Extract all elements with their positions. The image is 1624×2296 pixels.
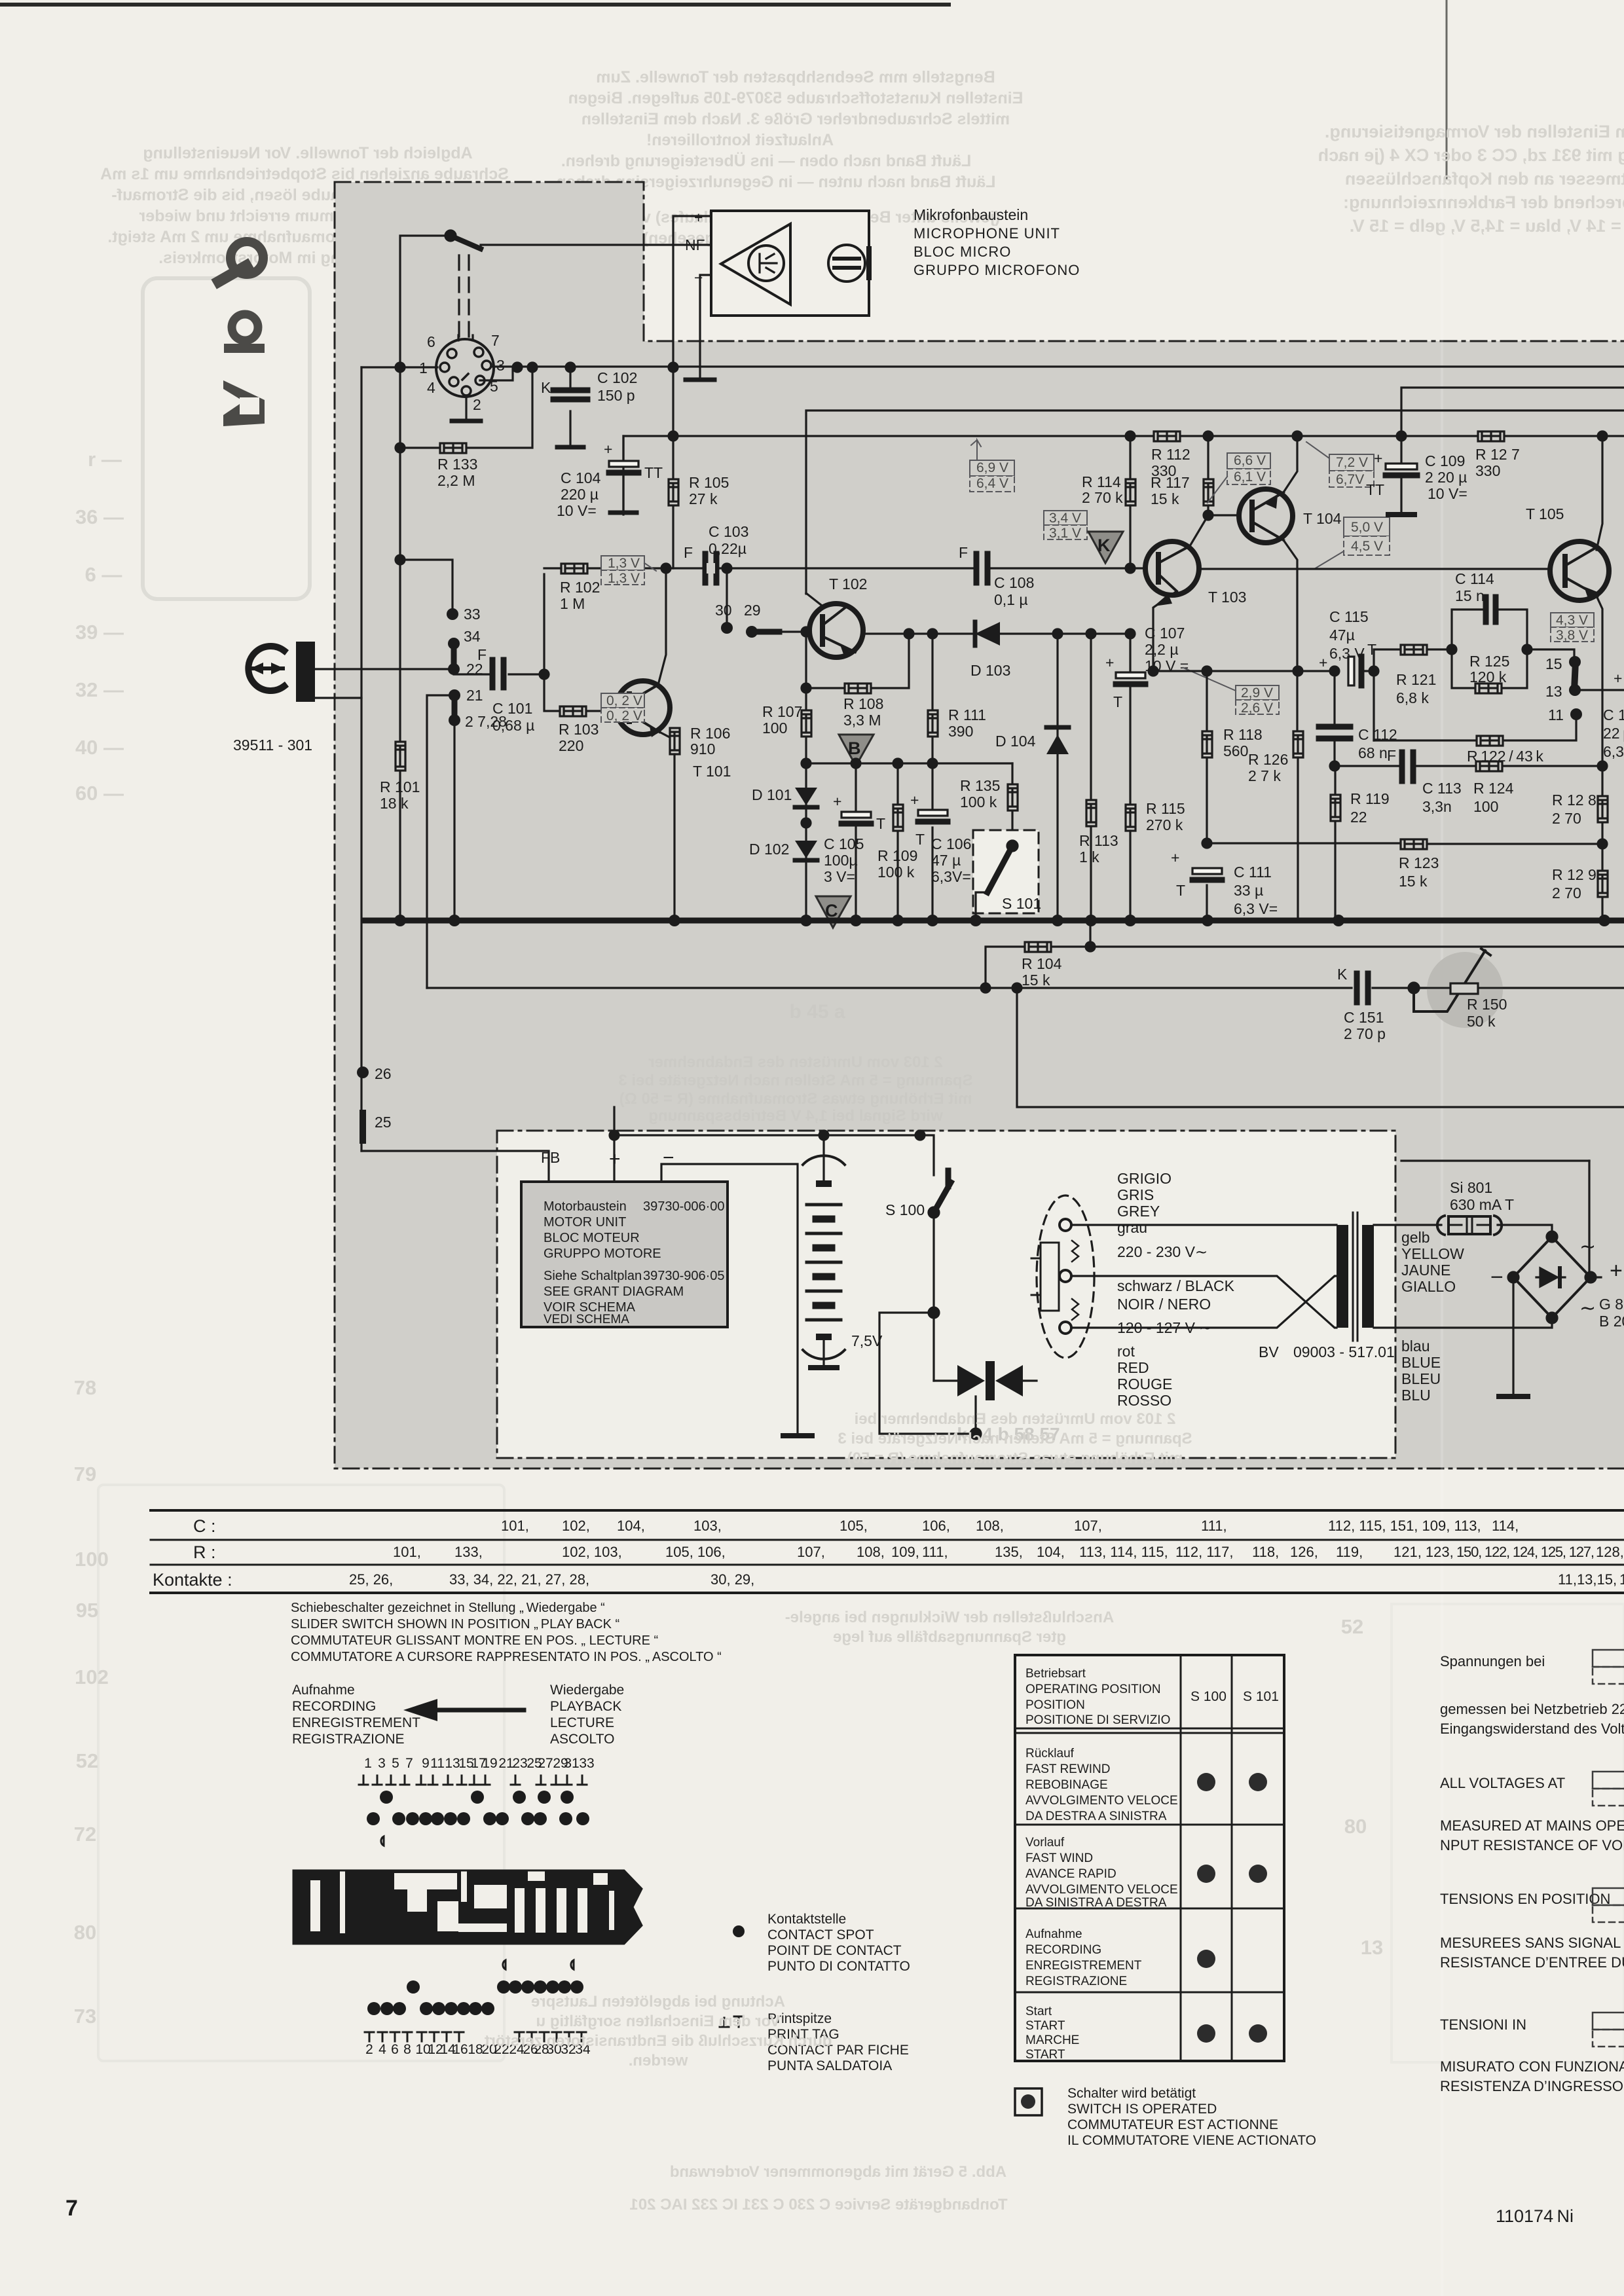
svg-text:R 123: R 123 [1399,854,1439,871]
svg-text:52: 52 [76,1749,98,1772]
speaker icon (rotated) [223,380,265,426]
diode D104 [1056,634,1058,920]
svg-text:113, 114, 115,: 113, 114, 115, [1079,1544,1168,1560]
motor unit box [521,1182,728,1327]
svg-text:2,2 µ: 2,2 µ [1145,641,1179,658]
wire T104 emitter down through R126 [1283,540,1297,731]
svg-text:−: − [663,1147,674,1169]
svg-text:ENREGISTREMENT: ENREGISTREMENT [1025,1959,1142,1973]
wire C109 top branch [1401,388,1624,436]
svg-text:100: 100 [762,720,787,737]
svg-text:T 104: T 104 [1303,510,1342,527]
svg-text:111,: 111, [922,1544,948,1560]
svg-text:19: 19 [482,1756,497,1771]
wire rot 120V crossing [1071,1276,1337,1328]
svg-text:COMMUTATORE A CURSORE RAPP: COMMUTATORE A CURSORE RAPPRESENTATO IN P… [291,1650,722,1664]
svg-text:AVVOLGIMENTO VELOCE: AVVOLGIMENTO VELOCE [1025,1794,1178,1808]
svg-text:GRUPPO MICROFONO: GRUPPO MICROFONO [913,262,1080,278]
svg-text:START: START [1025,2048,1065,2062]
contact spot dots row 3 [407,1980,583,1994]
wire collector line y868 [544,567,1145,569]
node D101/D102 junction [802,818,811,828]
svg-text:Schalter wird betätigt: Schalter wird betätigt [1067,2086,1196,2101]
svg-text:6,3: 6,3 [1603,743,1624,760]
svg-text:entsprechend der Farbkennzeich: entsprechend der Farbkennzeichnung: [1343,192,1624,212]
wire secondary bottom to bridge [1374,1320,1552,1328]
svg-text:29: 29 [744,602,761,619]
wire branch to bottom line [879,1313,976,1434]
svg-text:1,3 V: 1,3 V [608,556,640,571]
wire NF line to microphone unit [481,245,711,247]
potentiometer R150 [1427,952,1503,1028]
svg-text:Spannung = 5 mA Stellen nach: Spannung = 5 mA Stellen nach Netzgeräte … [618,1072,972,1089]
wire T104 collector to rail3 [1283,436,1297,492]
print tag symbols row (odd) [359,1776,587,1785]
svg-text:Kontakte :: Kontakte : [153,1570,232,1590]
resistor R126 [1293,666,1302,676]
wire B line [806,762,1012,764]
svg-text:11: 11 [430,1756,445,1771]
svg-text:r —: r — [88,448,122,471]
resistor R117 [1207,436,1209,479]
svg-text:112, 115, 151, 109, 113,: 112, 115, 151, 109, 113, [1328,1518,1481,1534]
svg-text:CONTACT SPOT: CONTACT SPOT [767,1927,874,1942]
wire + feed [613,1107,615,1182]
svg-text:11: 11 [1548,706,1564,723]
wire R107/diode chain vertical [805,688,807,920]
svg-text:D 101: D 101 [752,786,792,803]
svg-text:−: − [694,269,703,286]
svg-text:33: 33 [464,606,481,623]
resistor R109 [896,763,898,920]
svg-text:33 µ: 33 µ [1234,882,1263,899]
svg-text:C 102: C 102 [597,369,637,386]
svg-text:2: 2 [365,2042,373,2057]
svg-text:K: K [1337,966,1348,983]
svg-text:120 k: 120 k [1469,668,1507,685]
wire head top to contact 22 [315,668,448,670]
svg-text:6 —: 6 — [85,563,122,586]
svg-text:PUNTA SALDATOIA: PUNTA SALDATOIA [767,2058,892,2073]
svg-text:3 V=: 3 V= [824,868,855,885]
svg-text:79: 79 [74,1463,96,1485]
svg-text:102: 102 [75,1666,109,1688]
resistor R122 [1467,736,1543,765]
svg-text:BLEU: BLEU [1401,1370,1441,1387]
contact 25 [360,1113,366,1140]
wire R121 step [1374,649,1452,740]
svg-text:NPUT RESISTANCE OF VOLTAGE: NPUT RESISTANCE OF VOLTAGE M [1440,1837,1624,1853]
wire contact 27,28 to ground rail [453,720,455,920]
voltage box 0,2V/0,2V [601,693,644,722]
svg-text:105,: 105, [840,1518,868,1534]
switch S101 in white box [973,830,1039,913]
svg-text:POINT DE CONTACT: POINT DE CONTACT [767,1943,902,1958]
svg-text:39730-906·05: 39730-906·05 [643,1269,725,1283]
wire mic + to rail1 [673,216,711,367]
svg-text:18 k: 18 k [380,795,409,812]
svg-text:MARCHE: MARCHE [1025,2033,1079,2047]
voltage box 5,0V/4,5V [1314,517,1390,569]
svg-text:2 103 vom Umrüsten des Endabne: 2 103 vom Umrüsten des Endabnehmer [648,1053,942,1071]
transistor T104 [1239,489,1293,543]
svg-text:werden.: werden. [629,2052,689,2069]
contact 26 [357,1066,369,1078]
svg-text:6,9 V: 6,9 V [976,460,1008,475]
transistor T103 [1145,541,1199,595]
svg-text:7: 7 [491,332,500,349]
svg-text:13: 13 [1545,683,1562,700]
slider switch caption [291,1601,722,1664]
svg-text:BLU: BLU [1401,1387,1431,1404]
contact 21 with bridge to 27,28 [449,689,460,701]
svg-text:6,3 V: 6,3 V [1329,645,1365,662]
svg-text:T 102: T 102 [829,575,867,592]
svg-text:BLOC MOTEUR: BLOC MOTEUR [544,1231,640,1245]
svg-text:rot: rot [1117,1343,1135,1360]
svg-text:27 k: 27 k [689,490,718,507]
svg-text:128, 129: 128, 129 [1596,1544,1624,1560]
svg-text:R 126: R 126 [1248,751,1288,768]
svg-text:6,4 V: 6,4 V [976,476,1008,491]
record/playback direction labels [292,1683,624,1747]
resistor R135 [960,777,1018,811]
svg-text:C 106: C 106 [931,835,971,852]
svg-text:135,: 135, [995,1544,1023,1560]
svg-text:120 - 127 V ∼: 120 - 127 V ∼ [1117,1319,1212,1336]
svg-text:104,: 104, [1037,1544,1065,1560]
node DIN pin3 on rail1 [513,363,522,372]
svg-text:Abgleich der Tonwelle. Vor Neu: Abgleich der Tonwelle. Vor Neueinstellun… [143,144,472,162]
svg-text:grau: grau [1117,1219,1147,1236]
svg-text:R 101: R 101 [380,778,420,795]
svg-text:26: 26 [375,1065,392,1082]
svg-text:Wiedergabe: Wiedergabe [550,1683,624,1698]
svg-text:6,3V=: 6,3V= [931,868,971,885]
svg-text:Mikrofonbaustein: Mikrofonbaustein [913,206,1028,223]
svg-text:80: 80 [74,1921,96,1944]
svg-text:Aufnahme: Aufnahme [1025,1927,1082,1941]
contacts 15 / 13 / 11 [1527,649,1574,662]
svg-text:REGISTRAZIONE: REGISTRAZIONE [1025,1975,1127,1988]
svg-text:0,22µ: 0,22µ [709,540,747,557]
voltage box 1,3V/1,3V [601,556,656,585]
svg-text:103,: 103, [693,1518,722,1534]
svg-text:F: F [684,544,693,561]
feedback loop C114 / R125 [1452,610,1527,688]
wire colour labels secondary [1401,1229,1464,1404]
wire R108 loop [806,632,909,688]
svg-text:5,0 V: 5,0 V [1351,520,1383,535]
wire mic - to ground [700,275,711,378]
svg-text:AVANCE RAPID: AVANCE RAPID [1025,1867,1116,1881]
ground rail (thick) [364,918,1624,924]
capacitor C112 [1333,671,1335,766]
svg-text:C 107: C 107 [1145,625,1185,642]
svg-text:106,: 106, [922,1518,950,1534]
svg-text:D 102: D 102 [749,841,789,858]
svg-text:IL COMMUTATORE VIENE ACTION: IL COMMUTATORE VIENE ACTIONATO [1067,2133,1316,2148]
svg-text:TT: TT [1366,481,1384,498]
svg-text:21: 21 [466,687,483,704]
svg-text:107,: 107, [1074,1518,1102,1534]
node C106 top [928,759,937,768]
svg-text:+: + [1319,654,1327,671]
transformer BV 09003-517.01 [1337,1225,1348,1328]
svg-text:95: 95 [76,1599,98,1622]
wire R123 line y1290 [1207,843,1602,844]
svg-text:121, 123,: 121, 123, [1393,1544,1454,1560]
faint picture frames (show-through) [143,278,310,599]
svg-text:RED: RED [1117,1359,1149,1376]
slide switch above DIN socket [451,236,481,249]
svg-text:Schiebeschalter gezeichnet i: Schiebeschalter gezeichnet in Stellung „… [291,1601,605,1615]
resistor R133 [437,443,477,489]
op-amp triangle of microphone unit [721,224,790,304]
svg-text:40 —: 40 — [75,736,124,759]
wire left vertical to head and contacts 25/26 [360,367,362,1151]
battery 7,5V [822,1135,824,1185]
wire T104 base [1208,514,1237,516]
svg-text:+: + [1171,849,1179,866]
svg-text:D 103: D 103 [970,662,1010,679]
svg-text:15 k: 15 k [1022,972,1050,989]
svg-text:BV: BV [1259,1343,1279,1360]
odd contact numbers row [364,1756,595,1771]
svg-text:MOTOR UNIT: MOTOR UNIT [544,1215,626,1230]
resistor R125 [1469,653,1509,693]
svg-text:R 103: R 103 [559,721,599,738]
svg-text:102, 103,: 102, 103, [562,1544,622,1560]
svg-text:C :: C : [193,1516,216,1536]
svg-text:T 103: T 103 [1208,589,1246,606]
svg-text:Start: Start [1025,2005,1052,2018]
wire fuse to bridge [1498,1225,1552,1235]
wire R122 line y1131 [1374,720,1576,740]
svg-text:R 112: R 112 [1151,446,1190,463]
svg-text:GREY: GREY [1117,1203,1160,1220]
svg-text:7,2 V: 7,2 V [1336,455,1368,470]
svg-text:C 104: C 104 [561,469,601,486]
svg-text:Eingangswiderstand des Volt: Eingangswiderstand des Voltme [1440,1721,1624,1737]
svg-text:COMMUTATEUR GLISSANT MONTRE: COMMUTATEUR GLISSANT MONTRE EN POS. „ LE… [291,1633,658,1648]
svg-text:R 113: R 113 [1079,832,1118,849]
svg-text:104,: 104, [617,1518,645,1534]
wire rail 2 (T102 collector feed) [806,410,1624,594]
svg-text:C 105: C 105 [824,835,864,852]
wire DIN pin2 to ground [465,395,467,419]
wire contact 29 to T102 base [779,630,810,632]
svg-text:Si 801: Si 801 [1450,1179,1492,1196]
svg-text:133,: 133, [454,1544,483,1560]
DIN socket circle [436,339,494,397]
svg-text:150 p: 150 p [597,387,635,404]
svg-text:LECTURE: LECTURE [550,1715,614,1730]
svg-text:68 n: 68 n [1358,744,1388,761]
svg-text:Abb. 5 Gerät mit abgenommene: Abb. 5 Gerät mit abgenommener Vorderwand [670,2163,1006,2181]
svg-text:C 111: C 111 [1234,864,1272,881]
svg-text:Kontaktstelle: Kontaktstelle [767,1912,846,1927]
voltage box 7,2V/6,7V [1306,442,1374,487]
svg-text:1: 1 [1619,1571,1624,1588]
svg-text:R 118: R 118 [1223,726,1263,743]
svg-text:270 k: 270 k [1146,816,1183,833]
svg-text:Rücklauf: Rücklauf [1025,1747,1075,1760]
wire grau 220V [1071,1224,1337,1226]
svg-text:R 150: R 150 [1467,996,1507,1013]
svg-text:R 124: R 124 [1473,780,1514,797]
wire - wire of motor [661,1164,798,1434]
svg-text:220: 220 [559,737,583,754]
svg-text:Messung mit 931 zd, CC 3 oder: Messung mit 931 zd, CC 3 oder CX 4 (je n… [1318,145,1624,165]
wire T101 emitter to R106 [659,732,674,752]
svg-text:30, 29,: 30, 29, [710,1571,754,1588]
svg-text:T: T [1176,882,1185,899]
row R labels [193,1542,1624,1562]
wire R135/S101 branch [1011,763,1013,846]
svg-text:C 101: C 101 [492,700,532,717]
svg-text:Bengstelle mm Seebnshbpasten d: Bengstelle mm Seebnshbpasten der Tonwell… [596,68,995,86]
svg-text:Siehe Schaltplan: Siehe Schaltplan [544,1269,642,1283]
svg-text:4,3 V: 4,3 V [1556,613,1588,628]
voltage box 4,3V/3,8V [1551,613,1594,642]
svg-text:47 µ: 47 µ [931,852,961,869]
svg-text:DA SINISTRA A DESTRA: DA SINISTRA A DESTRA [1025,1896,1167,1910]
svg-text:3: 3 [496,357,505,374]
svg-text:S 100: S 100 [885,1201,925,1218]
svg-text:POSITIONE DI SERVIZIO: POSITIONE DI SERVIZIO [1025,1713,1170,1727]
svg-text:3,3 M: 3,3 M [843,712,881,729]
svg-text:AVVOLGIMENTO VELOCE: AVVOLGIMENTO VELOCE [1025,1883,1178,1897]
svg-text:T 105: T 105 [1526,505,1564,522]
transistor T105 [1550,541,1609,600]
wire FB feed from contact 25 [361,1151,549,1182]
svg-text:114,: 114, [1492,1518,1519,1534]
svg-text:15 k: 15 k [1399,873,1428,890]
svg-text:73: 73 [74,2005,96,2028]
svg-text:T: T [1113,693,1122,710]
svg-text:0,68 µ: 0,68 µ [492,717,534,734]
svg-text:BLOC MICRO: BLOC MICRO [913,244,1011,260]
faint margin numerals [74,448,1383,2028]
svg-text:2 70: 2 70 [1552,810,1581,827]
node at rail1/R101 [396,363,405,372]
resistor R123 [1399,839,1439,890]
svg-text:22: 22 [1350,809,1367,826]
node B line [802,759,811,768]
svg-text:220 - 230 V∼: 220 - 230 V∼ [1117,1243,1208,1260]
svg-text:112, 117,: 112, 117, [1175,1544,1233,1560]
switch operated legend [1015,2088,1042,2115]
wire line below rail y1446 with R104 [986,947,1624,988]
svg-text:B 20: B 20 [1599,1313,1624,1330]
svg-text:Einstellen Kunststoffschraube: Einstellen Kunststoffschraube 53079-105 … [568,89,1024,107]
svg-text:F: F [959,544,968,561]
triangle node B [839,735,874,766]
bridge rectifier G801 B20 [1513,1237,1591,1318]
svg-text:52: 52 [1341,1615,1363,1638]
placeholder groups filled below [219,242,265,426]
svg-text:SLIDER SWITCH SHOWN IN POS: SLIDER SWITCH SHOWN IN POSITION „ PLAY B… [291,1617,619,1631]
svg-text:mit Erhöhung etwas Stromaufnah: mit Erhöhung etwas Stromaufnahme (R = 50… [847,1449,1183,1467]
svg-text:PLAYBACK: PLAYBACK [550,1699,621,1714]
wire switch common / R101 vertical [400,236,451,920]
svg-text:4: 4 [378,2042,386,2057]
svg-text:R 104: R 104 [1022,955,1062,972]
svg-text:−: − [1490,1265,1504,1290]
svg-text:39511 - 301: 39511 - 301 [233,737,312,754]
slider switch PCB black pattern [293,1870,642,1944]
switch S100 [885,1201,925,1218]
svg-text:FB: FB [541,1149,560,1166]
svg-text:6,7V: 6,7V [1336,472,1364,487]
wire line y1509 (K line) [427,987,1624,989]
svg-text:2 103 vom Umrüsten des Endabne: 2 103 vom Umrüsten des Endabnehmer bei [855,1410,1176,1428]
svg-text:Spannung = 5 mA Stellen nach: Spannung = 5 mA Stellen nach Netzgeräte … [838,1430,1192,1448]
microphone unit box [711,211,869,316]
contact 33 [447,608,458,620]
svg-text:50 k: 50 k [1467,1013,1496,1030]
svg-text:R 114: R 114 [1082,473,1121,490]
svg-text:C 115: C 115 [1329,608,1369,625]
resistor R118 [1202,726,1263,759]
svg-text:15 k: 15 k [1151,490,1179,507]
svg-text:D 104: D 104 [995,733,1036,750]
svg-text:3,8 V: 3,8 V [1556,628,1588,643]
svg-text:100 k: 100 k [960,793,997,811]
svg-text:6,3 V=: 6,3 V= [1234,900,1278,917]
svg-text:C 103: C 103 [709,523,748,540]
svg-text:C 151: C 151 [1344,1009,1384,1026]
svg-text:330: 330 [1475,462,1500,479]
contact spot dots row 2 [367,1812,589,1825]
svg-text:60 —: 60 — [75,782,124,805]
svg-text:ENREGISTREMENT: ENREGISTREMENT [292,1715,420,1730]
svg-text:Millivoltmesser an den Kopfans: Millivoltmesser an den Kopfanschlüssen [1345,169,1624,189]
capacitor C101 [490,660,496,687]
svg-text:gelb: gelb [1401,1229,1430,1246]
capacitor C103 [703,554,709,583]
svg-text:10 V=: 10 V= [557,502,597,519]
svg-text:RESISTENZA D’INGRESSO DEL: RESISTENZA D’INGRESSO DEL VO [1440,2078,1624,2094]
svg-text:∼: ∼ [1579,1236,1596,1258]
svg-text:Motorbaustein: Motorbaustein [544,1199,627,1214]
capacitor C108 [974,554,980,583]
capacitor C104 (electrolytic) [622,436,624,511]
diode D101 [795,788,817,805]
svg-text:2,2 M: 2,2 M [437,472,475,489]
wire contact 13 out to right edge [1575,689,1624,691]
resistor R102 [560,564,600,612]
fuse Si801 [1437,1216,1502,1235]
svg-text:VEDI SCHEMA: VEDI SCHEMA [544,1313,629,1326]
svg-text:101,: 101, [501,1518,529,1534]
resistor R108 [843,683,883,729]
wire R106 to ground rail [673,754,675,920]
svg-text:OPERATING POSITION: OPERATING POSITION [1025,1683,1161,1696]
svg-text:2,6 V: 2,6 V [1241,701,1273,716]
svg-text:YELLOW: YELLOW [1401,1245,1464,1262]
svg-text:TENSIONS EN POSITION: TENSIONS EN POSITION [1440,1891,1610,1907]
svg-text:Aufnahme: Aufnahme [292,1683,355,1698]
wire T105 collector [1596,436,1602,550]
voltage selector [1037,1195,1094,1358]
svg-text:80: 80 [1344,1815,1367,1838]
svg-text:GRIGIO: GRIGIO [1117,1170,1172,1187]
svg-text:5: 5 [392,1756,399,1771]
contact spot dots row 4 [367,2002,494,2015]
svg-text:R 102: R 102 [560,579,600,596]
